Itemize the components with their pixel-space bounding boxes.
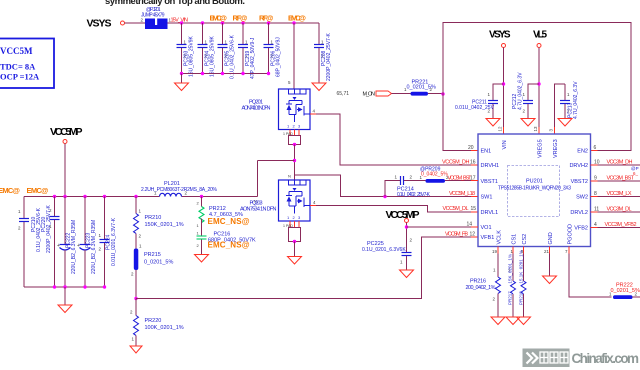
svg-text:EN2: EN2 <box>577 149 588 155</box>
svg-text:0.1U_0201_6.3V6K: 0.1U_0201_6.3V6K <box>362 247 406 253</box>
svg-text:1: 1 <box>132 337 135 342</box>
wire VIN caps ground bus <box>180 72 270 75</box>
svg-text:2: 2 <box>410 238 413 243</box>
wire VIN top bus <box>168 22 320 24</box>
svg-text:1: 1 <box>99 233 102 238</box>
capacitor PC206 <box>264 23 282 77</box>
svg-text:0.01U_0402_25V: 0.01U_0402_25V <box>455 105 495 111</box>
node VSYS (right) <box>489 30 511 48</box>
svg-text:2200P_0402_25V7-K: 2200P_0402_25V7-K <box>46 205 52 253</box>
wire VBST2 net <box>591 176 640 182</box>
svg-text:CS1: CS1 <box>512 234 518 245</box>
net label 15V_VIN <box>171 18 189 24</box>
svg-text:9: 9 <box>594 176 597 182</box>
svg-text:VCC5MP: VCC5MP <box>50 126 83 138</box>
svg-text:68P_0402_50V9J: 68P_0402_50V9J <box>276 37 282 77</box>
svg-text:PGOOD: PGOOD <box>568 224 574 245</box>
svg-text:RF@: RF@ <box>233 14 248 23</box>
svg-text:1: 1 <box>197 223 200 228</box>
capacitor PC211 <box>455 84 504 119</box>
wire VIN to PQ201 drain <box>288 23 294 89</box>
wire PGOOD net <box>565 247 612 298</box>
capacitor PC203 <box>177 23 195 77</box>
wire M_ON to PR221 <box>392 93 411 95</box>
svg-text:47P_0402_50V9-J: 47P_0402_50V9-J <box>250 37 256 79</box>
svg-text:12: 12 <box>470 231 476 237</box>
capacitor PC205 <box>218 23 236 79</box>
svg-text:VIN: VIN <box>502 140 508 149</box>
svg-text:16U_0805_25V9K: 16U_0805_25V9K <box>210 35 216 77</box>
svg-text:PR210: PR210 <box>145 215 162 221</box>
svg-text:EMC@: EMC@ <box>288 14 306 23</box>
source stubs PQ203 <box>283 221 301 243</box>
svg-text:4.7U_0402_6.3V: 4.7U_0402_6.3V <box>518 72 524 110</box>
svg-text:N: N <box>288 174 291 179</box>
svg-text:VSYS: VSYS <box>87 18 112 30</box>
capacitor PC210 <box>18 197 42 288</box>
svg-text:GND: GND <box>548 232 554 244</box>
svg-text:VCC3M_DL: VCC3M_DL <box>607 207 632 213</box>
svg-text:AON7534 1N DFN: AON7534 1N DFN <box>240 207 277 213</box>
transistor PQ201 <box>242 89 311 130</box>
svg-text:1: 1 <box>287 124 290 129</box>
svg-text:TDC= 8A: TDC= 8A <box>0 62 36 72</box>
pin 4 gate PQ203 <box>310 200 316 206</box>
svg-text:1: 1 <box>287 215 290 220</box>
svg-text:VCC3M_VFB2: VCC3M_VFB2 <box>605 222 637 228</box>
svg-text:1: 1 <box>567 92 570 97</box>
ground (PR217) <box>506 317 520 325</box>
svg-text:VO1: VO1 <box>481 225 492 231</box>
port M_ON <box>363 91 392 98</box>
svg-text:2: 2 <box>139 234 142 239</box>
svg-text:DRVH2: DRVH2 <box>569 163 588 169</box>
svg-text:0.1U_0402_25V6-K: 0.1U_0402_25V6-K <box>230 34 236 79</box>
node VCC5MP (left) <box>50 126 83 197</box>
transistor PQ203 <box>240 180 310 221</box>
svg-text:CS2: CS2 <box>522 234 528 245</box>
resistor PR209 (0 ohm) <box>412 167 479 183</box>
wire SW to inductor <box>254 161 295 204</box>
svg-text:2.2UH_PCM8063T-2R2MS_8A_20%: 2.2UH_PCM8063T-2R2MS_8A_20% <box>141 187 218 193</box>
svg-text:4: 4 <box>594 222 597 228</box>
svg-text:VCC3M_BST: VCC3M_BST <box>607 176 635 182</box>
svg-text:3: 3 <box>298 215 301 220</box>
capacitor PC223 polarized <box>77 197 97 288</box>
svg-text:1: 1 <box>493 268 496 273</box>
ground (PC213) <box>558 119 572 127</box>
svg-text:20: 20 <box>468 145 474 151</box>
wire EN routing loop <box>443 23 631 152</box>
ground (VIN caps) <box>175 74 189 91</box>
svg-text:8: 8 <box>594 191 597 197</box>
node VL5 <box>533 30 547 48</box>
svg-text:VSYS: VSYS <box>489 30 511 41</box>
svg-text:4: 4 <box>313 200 316 205</box>
capacitor PC216 (snubber) <box>197 231 257 255</box>
svg-text:VREG5: VREG5 <box>538 139 544 158</box>
wire PQ201 source to SW node <box>293 145 296 181</box>
wire GND pin <box>544 247 550 277</box>
resistor PR220 <box>130 299 184 347</box>
wire SW2 net <box>591 191 640 197</box>
svg-text:6: 6 <box>594 145 597 151</box>
svg-text:JUMP 45X79: JUMP 45X79 <box>141 13 165 19</box>
wire VSYS to VIN pin <box>498 48 506 135</box>
svg-text:2: 2 <box>293 215 296 220</box>
svg-text:1: 1 <box>18 209 21 214</box>
resistor PR217 <box>508 247 516 318</box>
net label VCC5M_FB pin12 <box>445 231 475 237</box>
resistor PR216 <box>466 247 501 318</box>
wire VL5 to VREG5 pin <box>533 48 541 135</box>
svg-text:1: 1 <box>395 175 398 180</box>
node VCC5MP (right) <box>386 209 420 223</box>
svg-text:14: 14 <box>467 222 473 228</box>
svg-text:1: 1 <box>271 40 274 45</box>
wire PR221 to EN loop <box>428 92 445 95</box>
capacitor PC225 <box>362 238 413 271</box>
wire VO1 net <box>405 222 478 240</box>
svg-text:VFB1: VFB1 <box>481 235 495 241</box>
svg-text:VCLK: VCLK <box>497 230 503 245</box>
svg-text:TPS51285B-1RU/KR_WQFN20_3X3: TPS51285B-1RU/KR_WQFN20_3X3 <box>498 186 571 192</box>
node VSYS (left) <box>87 18 125 30</box>
net label VCC5M_LX pin18 <box>449 191 475 197</box>
svg-text:1: 1 <box>245 40 248 45</box>
svg-text:PR218: PR218 <box>519 291 524 305</box>
capacitor PC212 <box>512 72 539 119</box>
svg-text:10: 10 <box>594 160 600 166</box>
source stubs PQ201 <box>283 130 301 147</box>
svg-text:1: 1 <box>197 231 200 236</box>
label fragment @PR2 <box>631 166 639 176</box>
svg-text:2: 2 <box>99 247 102 252</box>
wire DRVL2 net <box>591 207 640 213</box>
net label VCC5M_DL pin15 <box>443 206 477 212</box>
ground (PC208) <box>312 83 326 91</box>
wire DRVH2 net <box>591 160 640 166</box>
spec box VCC5M TDC/OCP <box>0 39 54 89</box>
capacitor PC219 <box>238 23 256 79</box>
svg-text:1: 1 <box>184 40 187 45</box>
svg-text:150K_0201_1%: 150K_0201_1% <box>145 222 184 228</box>
svg-text:15.1K_0201_1%: 15.1K_0201_1% <box>519 250 524 283</box>
capacitor PC204 <box>198 23 216 77</box>
ground (GND pin) <box>543 276 557 284</box>
resistor PR222 (0 ohm) <box>609 283 640 300</box>
svg-text:16U_0805_25V9K: 16U_0805_25V9K <box>189 35 195 77</box>
wire VFB1 feedback net <box>136 237 478 299</box>
svg-text:VCC5M_FB: VCC5M_FB <box>445 231 468 237</box>
svg-text:2: 2 <box>197 243 200 248</box>
wire DRVL1 net <box>316 206 478 213</box>
svg-text:13: 13 <box>533 126 538 132</box>
svg-text:VCC5M_DH: VCC5M_DH <box>442 160 470 166</box>
svg-text:1: 1 <box>400 260 403 265</box>
svg-text:OCP =12A: OCP =12A <box>0 72 40 82</box>
inductor PL201 <box>141 181 218 197</box>
svg-text:2: 2 <box>130 310 133 315</box>
svg-text:VCC5M_BST: VCC5M_BST <box>448 175 473 181</box>
svg-text:220U_B2_6.3VM_R35M: 220U_B2_6.3VM_R35M <box>91 220 97 274</box>
pin 4 gate PQ201 <box>310 109 316 115</box>
svg-text:EMC@: EMC@ <box>0 186 20 195</box>
svg-text:AON7410 1N DFN: AON7410 1N DFN <box>242 106 271 112</box>
wire DRVH1 net <box>316 114 478 165</box>
svg-text:11: 11 <box>594 207 599 213</box>
capacitor PC208 <box>314 23 332 83</box>
wire VFB2 net <box>591 222 640 228</box>
svg-text:4: 4 <box>313 109 316 114</box>
svg-text:65,71: 65,71 <box>337 91 350 97</box>
svg-text:DRVH1: DRVH1 <box>481 163 500 169</box>
svg-text:2: 2 <box>493 297 496 302</box>
svg-text:2: 2 <box>293 124 296 129</box>
svg-text:21: 21 <box>544 249 550 254</box>
capacitor PC214 <box>385 175 431 198</box>
svg-text:EMC@: EMC@ <box>210 14 228 23</box>
capacitor PC224 <box>99 197 118 288</box>
svg-text:VCC3M_LX: VCC3M_LX <box>607 191 632 197</box>
junction dots on VIN bus <box>180 21 296 24</box>
svg-text:VFB2: VFB2 <box>574 226 588 232</box>
svg-text:VCC3M_DH: VCC3M_DH <box>607 160 633 166</box>
svg-text:EMC_NS@: EMC_NS@ <box>208 217 250 226</box>
svg-text:4.7U_0402_6.3V: 4.7U_0402_6.3V <box>573 81 579 119</box>
jumper PJ201 <box>141 7 172 29</box>
svg-text:12: 12 <box>498 126 503 132</box>
ground (PR218) <box>517 317 531 325</box>
ground (PC212) <box>521 119 535 127</box>
op-amp U1 : IC PU201 TPS51285B <box>478 134 591 247</box>
resistor PR215 (0 ohm) <box>131 244 173 301</box>
capacitor PC220 <box>41 197 60 288</box>
svg-text:5: 5 <box>288 80 291 85</box>
svg-text:PR215: PR215 <box>144 252 161 258</box>
capacitor PC222 polarized <box>57 197 77 288</box>
svg-text:1: 1 <box>205 40 208 45</box>
svg-text:1: 1 <box>321 40 324 45</box>
svg-text:VCC5M_L18: VCC5M_L18 <box>449 191 475 197</box>
svg-text:1: 1 <box>139 244 142 249</box>
net label VCC5M_BST pin17 <box>448 175 476 181</box>
wire VCC5MP output bus <box>24 195 258 198</box>
svg-text:3: 3 <box>298 124 301 129</box>
svg-text:2: 2 <box>131 272 134 277</box>
ground (PQ203 source) <box>288 242 302 265</box>
svg-text:DRVL2: DRVL2 <box>570 210 588 216</box>
svg-text:SW1: SW1 <box>481 195 493 201</box>
svg-text:2: 2 <box>18 226 21 231</box>
svg-text:0.01U_0201_6.3V7-K: 0.01U_0201_6.3V7-K <box>111 217 117 266</box>
wire VREG3 pin riser <box>549 84 566 134</box>
svg-text:PR217: PR217 <box>508 291 513 305</box>
svg-text:0_0201_5%: 0_0201_5% <box>144 260 173 266</box>
ground (output caps) <box>58 287 72 313</box>
svg-text:2: 2 <box>197 201 200 206</box>
svg-text:PR220: PR220 <box>145 318 162 324</box>
ground (PC225) <box>400 270 414 278</box>
svg-text:PR216: PR216 <box>470 279 486 285</box>
svg-text:VCC5M_DL: VCC5M_DL <box>443 206 469 212</box>
resistor PR218 <box>519 247 527 318</box>
svg-text:200_0402_1%: 200_0402_1% <box>466 285 496 291</box>
svg-text:1: 1 <box>488 92 491 97</box>
wire SW1 to IC <box>288 174 478 199</box>
text 65,71 <box>337 91 350 97</box>
svg-text:0_0402_5%: 0_0402_5% <box>421 172 448 178</box>
svg-text:17: 17 <box>470 175 476 181</box>
svg-text:SW2: SW2 <box>576 195 588 201</box>
svg-text:0.1U_0402_25V7-K: 0.1U_0402_25V7-K <box>397 192 431 198</box>
svg-text:VCC5MP: VCC5MP <box>386 209 420 221</box>
svg-text:2200P_0402_25V7-K: 2200P_0402_25V7-K <box>326 33 332 81</box>
resistor PR210 <box>134 197 184 249</box>
net label VCC5M_DH pin16 <box>442 160 476 166</box>
svg-text:EMC@: EMC@ <box>27 186 49 195</box>
svg-text:DRVL1: DRVL1 <box>481 210 499 216</box>
svg-text:VBST2: VBST2 <box>571 179 588 185</box>
svg-text:VCC5M: VCC5M <box>0 46 33 56</box>
ground (snubber) <box>195 255 209 263</box>
ground (PC211) <box>486 119 500 127</box>
svg-text:VBST1: VBST1 <box>481 179 498 185</box>
svg-text:19: 19 <box>492 249 498 254</box>
svg-text:15: 15 <box>471 206 477 212</box>
net labels EMC@ RF@ RF@ EMC@ (top) <box>210 14 307 23</box>
net labels EMC@ EMC@ (output) <box>0 186 49 195</box>
svg-text:7: 7 <box>565 249 568 254</box>
watermark chinafix <box>523 349 640 368</box>
svg-text:M_ON: M_ON <box>363 92 376 98</box>
svg-text:15K_0201_1%: 15K_0201_1% <box>508 254 513 284</box>
svg-text:3: 3 <box>549 129 554 132</box>
svg-text:1: 1 <box>225 40 228 45</box>
svg-text:EN1: EN1 <box>481 149 492 155</box>
svg-text:1: 1 <box>139 209 142 214</box>
svg-text:Chinafix.com: Chinafix.com <box>572 351 640 366</box>
svg-text:PU201: PU201 <box>526 179 543 185</box>
resistor PR212 (snubber) <box>197 197 250 236</box>
svg-text:VREG3: VREG3 <box>553 139 559 158</box>
svg-text:RF@: RF@ <box>259 14 274 23</box>
svg-text:2: 2 <box>410 175 413 180</box>
note top clipped text <box>105 0 245 7</box>
wire output caps ground bus <box>24 285 106 288</box>
svg-text:EMC_NS@: EMC_NS@ <box>208 241 250 250</box>
svg-text:symmetrically on Top and Botto: symmetrically on Top and Bottom. <box>105 0 245 7</box>
wire VSYS to jumper <box>125 22 146 24</box>
svg-text:16: 16 <box>470 160 476 166</box>
svg-text:VL5: VL5 <box>533 30 547 41</box>
capacitor PC213 <box>560 81 579 119</box>
ground (PR216) <box>491 317 505 325</box>
resistor PR221 (0 ohm) <box>404 80 436 96</box>
ground (PR220) <box>130 346 142 353</box>
svg-text:100K_0201_1%: 100K_0201_1% <box>145 325 184 331</box>
